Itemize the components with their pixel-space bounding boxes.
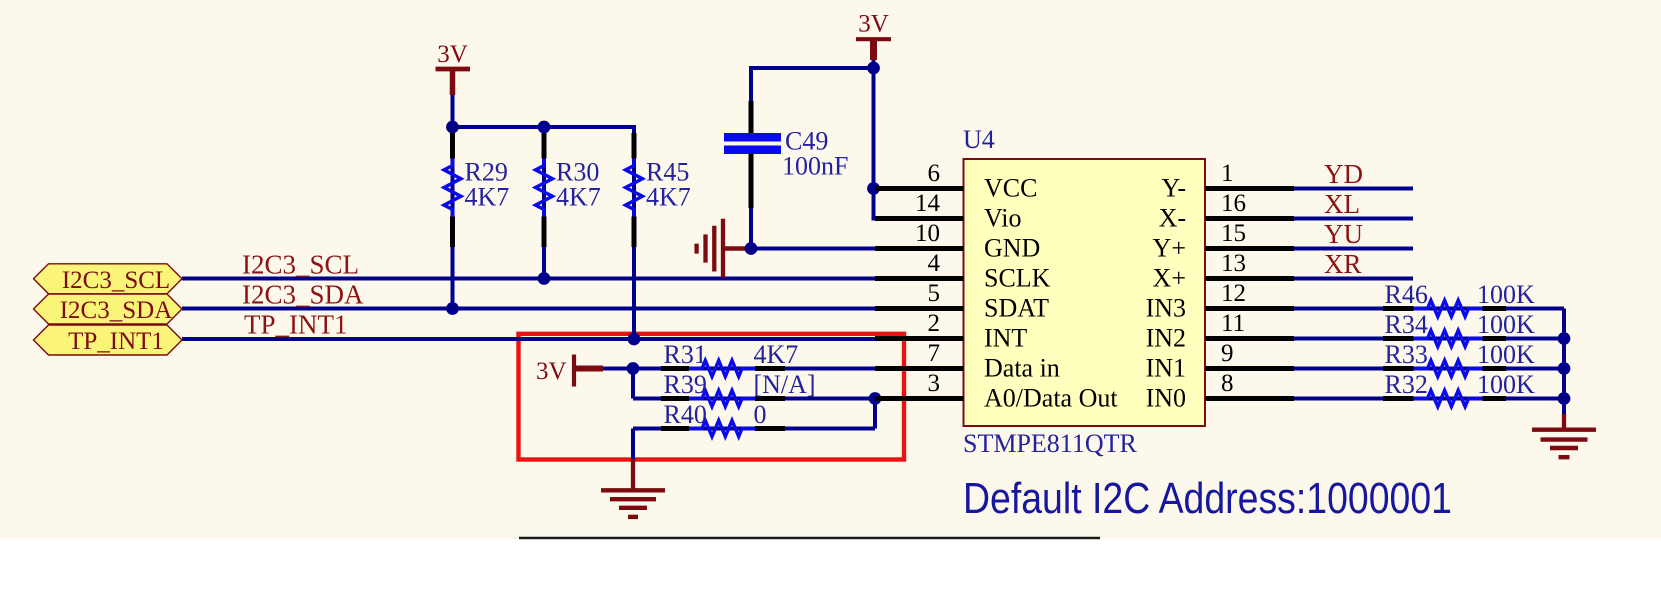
svg-text:15: 15 bbox=[1221, 220, 1246, 247]
svg-text:6: 6 bbox=[928, 160, 941, 187]
svg-text:X+: X+ bbox=[1153, 264, 1186, 293]
pin 16 X- bbox=[1159, 190, 1294, 233]
junction bbox=[1558, 332, 1571, 345]
svg-text:4K7: 4K7 bbox=[754, 340, 799, 369]
svg-text:R34: R34 bbox=[1385, 310, 1428, 339]
svg-text:R31: R31 bbox=[664, 340, 707, 369]
svg-text:4K7: 4K7 bbox=[465, 183, 510, 212]
svg-text:Y+: Y+ bbox=[1153, 234, 1186, 263]
pin 8 IN0 bbox=[1146, 370, 1294, 413]
svg-text:4: 4 bbox=[928, 250, 941, 277]
power 3V top-left bbox=[436, 41, 471, 95]
svg-text:XR: XR bbox=[1324, 249, 1362, 279]
svg-text:Vio: Vio bbox=[984, 204, 1021, 233]
pin 14 Vio bbox=[875, 190, 1021, 233]
pin 11 IN2 bbox=[1146, 310, 1294, 353]
pin 3 A0/Data Out bbox=[875, 370, 1118, 413]
svg-text:IN2: IN2 bbox=[1146, 324, 1186, 353]
svg-text:14: 14 bbox=[915, 190, 941, 217]
ground sideways at GND pin bbox=[697, 219, 753, 278]
resistor R45 bbox=[626, 133, 691, 247]
junction bbox=[538, 121, 551, 134]
pin 6 VCC bbox=[875, 160, 1037, 203]
svg-text:5: 5 bbox=[928, 280, 941, 307]
wire C49 column bbox=[749, 66, 753, 104]
svg-text:TP_INT1: TP_INT1 bbox=[68, 328, 164, 355]
wire I2C3_SDA bus bbox=[182, 307, 875, 311]
svg-text:13: 13 bbox=[1221, 250, 1246, 277]
svg-text:1: 1 bbox=[1221, 160, 1234, 187]
pin 10 GND bbox=[875, 220, 1040, 263]
resistor R46 bbox=[1383, 280, 1535, 317]
wire IN0 row bbox=[1294, 397, 1564, 401]
ground below R40 bbox=[601, 459, 665, 517]
power 3V in highlight box bbox=[536, 355, 603, 387]
pin 5 SDAT bbox=[875, 280, 1049, 323]
port TP_INT1 bbox=[34, 325, 183, 355]
resistor R30 bbox=[536, 133, 601, 247]
junction bbox=[628, 333, 641, 346]
resistor R39 bbox=[661, 370, 816, 407]
capacitor C49 100nF bbox=[724, 101, 848, 208]
svg-text:8: 8 bbox=[1221, 370, 1234, 397]
wire Data in row bbox=[633, 367, 875, 371]
pin 13 X+ bbox=[1153, 250, 1294, 293]
svg-text:I2C3_SDA: I2C3_SDA bbox=[242, 280, 364, 310]
svg-text:3V: 3V bbox=[536, 358, 567, 385]
wire R30 column bbox=[542, 125, 546, 279]
svg-text:YD: YD bbox=[1324, 159, 1363, 189]
wire C49 top bbox=[751, 66, 874, 70]
svg-text:[N/A]: [N/A] bbox=[754, 370, 816, 399]
highlight box around R31/R39/R40 bbox=[519, 334, 905, 460]
svg-text:X-: X- bbox=[1159, 204, 1186, 233]
svg-text:3V: 3V bbox=[437, 41, 468, 68]
wire IN3 row bbox=[1294, 307, 1564, 311]
svg-text:2: 2 bbox=[928, 310, 941, 337]
pin 7 Data in bbox=[875, 340, 1060, 383]
svg-text:11: 11 bbox=[1221, 310, 1245, 337]
wire riser 3V to R39 bbox=[631, 369, 635, 399]
pin 12 IN3 bbox=[1146, 280, 1294, 323]
svg-text:GND: GND bbox=[984, 234, 1040, 263]
wire YD bbox=[1294, 187, 1413, 191]
junction bbox=[1558, 362, 1571, 375]
port I2C3_SCL bbox=[34, 264, 183, 294]
svg-text:STMPE811QTR: STMPE811QTR bbox=[963, 429, 1137, 458]
svg-text:R33: R33 bbox=[1385, 340, 1428, 369]
svg-text:I2C3_SCL: I2C3_SCL bbox=[62, 267, 170, 294]
resistor R40 bbox=[661, 400, 785, 437]
junction bbox=[869, 392, 882, 405]
junction bbox=[867, 62, 880, 75]
wire XR bbox=[1294, 277, 1413, 281]
svg-text:100nF: 100nF bbox=[782, 152, 848, 181]
svg-text:16: 16 bbox=[1221, 190, 1246, 217]
wire 3V box stem bbox=[601, 367, 633, 371]
svg-text:Y-: Y- bbox=[1161, 174, 1186, 203]
wire IN2 row bbox=[1294, 337, 1564, 341]
resistor R32 bbox=[1383, 370, 1535, 407]
pin 1 Y- bbox=[1161, 160, 1294, 203]
wire 3V to VCC/Vio bbox=[874, 58, 878, 219]
pin 9 IN1 bbox=[1146, 340, 1294, 383]
wire R29 column bbox=[451, 125, 455, 309]
resistor R31 bbox=[661, 340, 798, 377]
svg-text:SCLK: SCLK bbox=[984, 264, 1051, 293]
wire 3V rail top-left bbox=[453, 125, 635, 129]
svg-text:Data in: Data in bbox=[984, 354, 1060, 383]
svg-text:100K: 100K bbox=[1477, 310, 1535, 339]
wire R45 column bbox=[632, 125, 636, 339]
svg-text:XL: XL bbox=[1324, 189, 1360, 219]
svg-text:12: 12 bbox=[1221, 280, 1246, 307]
port I2C3_SDA bbox=[34, 294, 183, 324]
svg-text:SDAT: SDAT bbox=[984, 294, 1049, 323]
svg-text:3V: 3V bbox=[858, 11, 889, 38]
junction bbox=[745, 242, 758, 255]
pin 2 INT bbox=[875, 310, 1027, 353]
svg-text:IN1: IN1 bbox=[1146, 354, 1186, 383]
svg-text:10: 10 bbox=[915, 220, 940, 247]
svg-text:100K: 100K bbox=[1477, 280, 1535, 309]
svg-text:VCC: VCC bbox=[984, 174, 1037, 203]
svg-text:0: 0 bbox=[754, 400, 767, 429]
wire 3V left stem bbox=[451, 93, 455, 127]
svg-text:INT: INT bbox=[984, 324, 1027, 353]
resistor R34 bbox=[1383, 310, 1535, 347]
junction bbox=[538, 272, 551, 285]
junction bbox=[867, 182, 880, 195]
svg-text:100K: 100K bbox=[1477, 340, 1535, 369]
ground bottom right bbox=[1532, 414, 1596, 457]
junction bbox=[446, 121, 459, 134]
wire A0 row bbox=[633, 397, 875, 401]
svg-text:7: 7 bbox=[928, 340, 941, 367]
pin 4 SCLK bbox=[875, 250, 1051, 293]
wire R40 to ground bbox=[631, 429, 635, 460]
wire right common to ground bbox=[1562, 309, 1566, 415]
svg-text:IN0: IN0 bbox=[1146, 384, 1186, 413]
junction bbox=[1558, 392, 1571, 405]
svg-text:I2C3_SDA: I2C3_SDA bbox=[60, 297, 173, 324]
sheet border line bbox=[519, 537, 1100, 540]
svg-text:Default I2C Address:1000001: Default I2C Address:1000001 bbox=[963, 474, 1452, 523]
resistor R29 bbox=[444, 133, 509, 247]
svg-text:IN3: IN3 bbox=[1146, 294, 1186, 323]
wire XL bbox=[1294, 217, 1413, 221]
resistor R33 bbox=[1383, 340, 1535, 377]
svg-text:9: 9 bbox=[1221, 340, 1234, 367]
svg-text:R46: R46 bbox=[1385, 280, 1428, 309]
svg-text:R40: R40 bbox=[664, 400, 707, 429]
wire R40 right riser bbox=[873, 397, 877, 429]
junction bbox=[446, 302, 459, 315]
svg-text:4K7: 4K7 bbox=[556, 183, 601, 212]
svg-text:100K: 100K bbox=[1477, 370, 1535, 399]
wire TP_INT1 bus bbox=[182, 337, 875, 341]
svg-text:A0/Data Out: A0/Data Out bbox=[984, 384, 1118, 413]
svg-text:3: 3 bbox=[928, 370, 941, 397]
wire YU bbox=[1294, 247, 1413, 251]
svg-text:I2C3_SCL: I2C3_SCL bbox=[242, 250, 359, 280]
svg-text:4K7: 4K7 bbox=[646, 183, 691, 212]
svg-text:R39: R39 bbox=[664, 370, 707, 399]
wire I2C3_SCL bus bbox=[182, 277, 875, 281]
power 3V top-center bbox=[856, 11, 891, 61]
pin 15 Y+ bbox=[1153, 220, 1294, 263]
svg-text:TP_INT1: TP_INT1 bbox=[244, 310, 348, 340]
svg-text:U4: U4 bbox=[963, 125, 995, 154]
svg-text:YU: YU bbox=[1324, 219, 1363, 249]
wire IN1 row bbox=[1294, 367, 1564, 371]
junction bbox=[627, 362, 640, 375]
IC U4 STMPE811QTR body bbox=[964, 159, 1206, 426]
svg-text:R32: R32 bbox=[1385, 370, 1428, 399]
wire R40 row bbox=[633, 427, 875, 431]
wire GND row to pin 10 bbox=[751, 247, 876, 251]
